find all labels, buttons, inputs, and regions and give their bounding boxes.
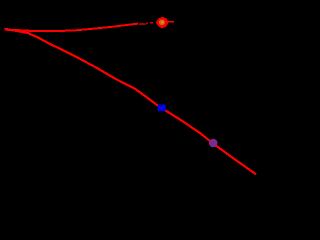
planet marker blue bottom bridge [160,109,164,111]
wire: dim dash 2 [146,22,148,24]
wire: scribble loop around sun [158,19,166,26]
sun core orange dot [159,19,165,25]
wire: dim dash 1 approaching sun [139,23,146,25]
sun core bright center [161,21,164,24]
planet marker blue right dot [162,104,166,111]
planet marker blue left dot [158,104,162,111]
wire: dash 3 [150,22,153,24]
wire: upper leg overlap thickening [5,29,81,31]
planet marker purple dot [209,139,218,148]
wire: scribble loop 2 [157,18,168,28]
wire: lower trajectory curve [5,29,257,175]
wire: upper orbit leg from left vertex to sun [5,24,139,31]
wire: segment exiting sun to the right [166,21,175,23]
